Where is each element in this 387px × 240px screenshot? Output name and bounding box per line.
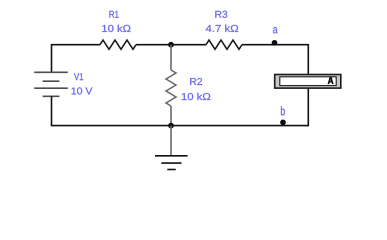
- value 10 kΩ (R1): [102, 25, 130, 32]
- value 10 kΩ (R2): [182, 93, 210, 100]
- wire top between R1 and R3: [136, 44, 206, 46]
- battery V1 bottom lead: [51, 96, 53, 126]
- wire bottom: [52, 125, 309, 127]
- label R1: [109, 11, 118, 18]
- label V1: [74, 73, 83, 80]
- ground bar 3: [167, 169, 175, 171]
- resistor R2: [166, 70, 176, 106]
- ammeter letter A: [328, 77, 333, 84]
- resistor R3: [206, 40, 242, 49]
- battery V1 plate 4 short: [43, 95, 60, 97]
- node junction dot bottom (R2/ground): [168, 123, 174, 129]
- label b: [281, 106, 285, 115]
- ground lead: [170, 126, 172, 156]
- label R2: [190, 78, 202, 85]
- resistor R1: [100, 40, 136, 49]
- node b dot: [280, 120, 286, 126]
- value 4.7 kΩ (R3): [206, 25, 238, 32]
- node junction dot top (R1/R2/R3): [168, 42, 174, 48]
- battery V1 plate 1 long: [34, 71, 68, 73]
- wire top from V1 to R1: [52, 44, 101, 46]
- ground bar 1: [155, 155, 188, 157]
- value 10 V: [72, 87, 93, 94]
- battery V1 plate 2 short: [43, 80, 60, 82]
- battery V1 top lead: [51, 44, 53, 72]
- node a dot: [272, 40, 278, 46]
- wire right vertical lower (ammeter to b): [307, 89, 309, 127]
- wire right vertical upper (a to ammeter): [307, 44, 309, 74]
- battery V1 plate 3 long: [34, 87, 68, 89]
- ground bar 2: [161, 162, 181, 164]
- label R3: [215, 11, 227, 18]
- resistor R2 bottom lead: [170, 106, 172, 126]
- ammeter U1 outer box: [275, 75, 341, 89]
- ammeter inner window: [280, 77, 336, 86]
- label a: [273, 27, 278, 33]
- wire top from R3 to right corner: [242, 44, 308, 46]
- resistor R2 top lead: [170, 45, 172, 70]
